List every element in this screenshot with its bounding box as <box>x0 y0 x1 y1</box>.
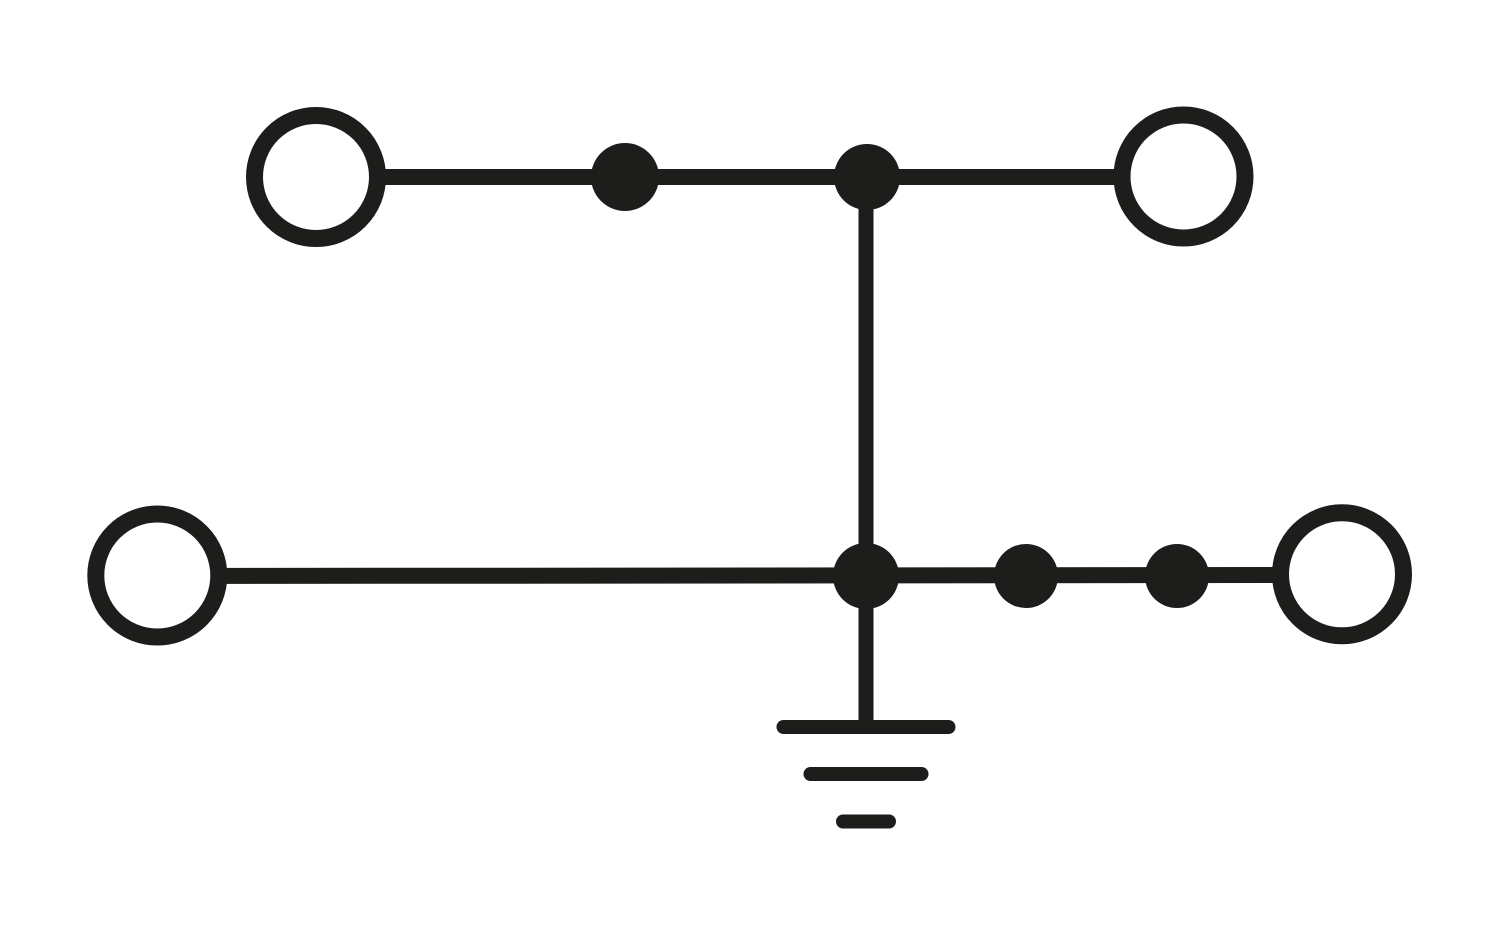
wire top horizontal bus <box>316 169 1184 185</box>
terminal 4 (bottom right connection circle) <box>1281 513 1404 636</box>
terminal 2 (top right connection circle) <box>1122 115 1245 238</box>
terminal 3 (bottom left connection circle) <box>96 514 219 637</box>
wire ground lead <box>859 576 874 727</box>
node junction top (bridge tap) <box>834 144 900 210</box>
node junction bottom (bridge/ground tap) <box>833 543 899 609</box>
ground bar 2 (middle) <box>811 767 922 781</box>
wire bottom horizontal bus <box>157 575 1342 576</box>
clamp contact dot bottom right <box>1145 544 1209 608</box>
wire vertical bridge between buses <box>859 177 874 576</box>
ground bar 3 (bottom, shortest) <box>843 815 889 829</box>
clamp contact dot top <box>591 143 659 211</box>
clamp contact dot bottom left <box>994 544 1058 608</box>
terminal 1 (top left connection circle) <box>255 116 378 239</box>
ground bar 1 (top, widest) <box>784 720 949 734</box>
